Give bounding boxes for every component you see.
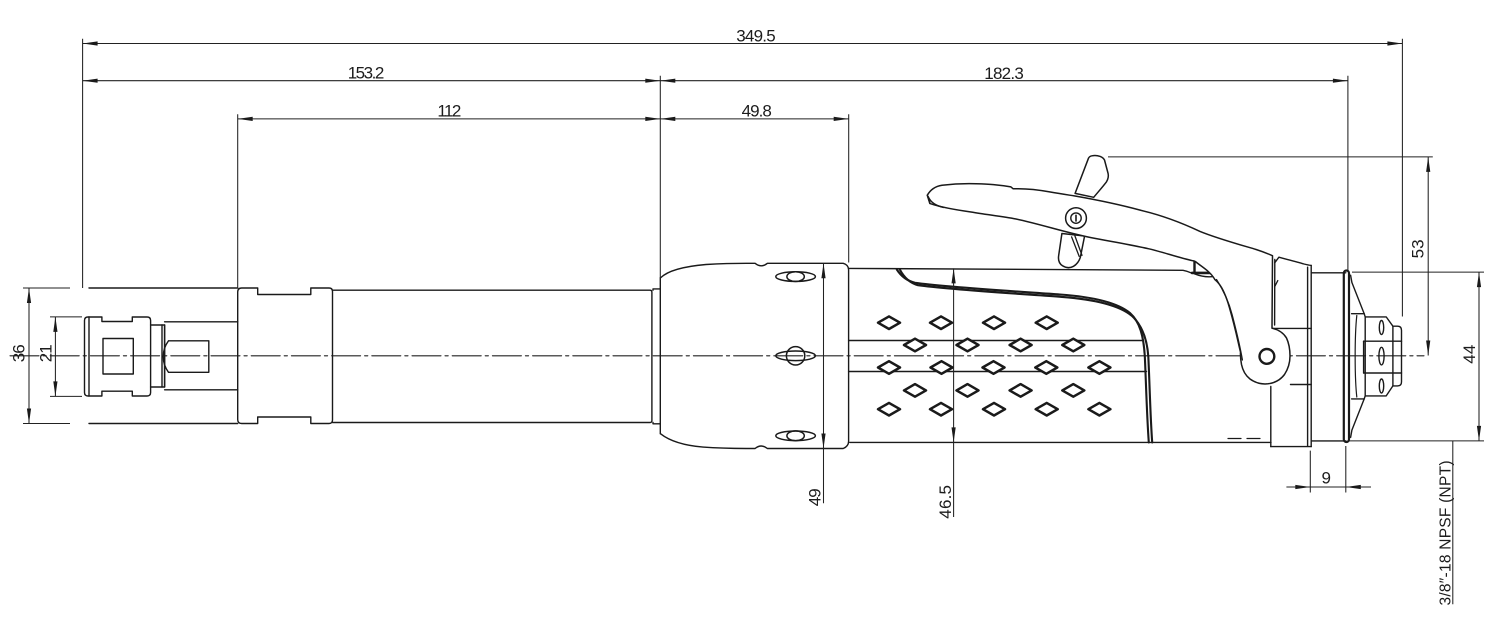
ext line left x=82.6 xyxy=(82,39,84,288)
end cap right edge xyxy=(1310,265,1312,446)
throttle lever (white filled) xyxy=(927,184,1290,384)
nose cylinder xyxy=(165,322,238,390)
svg-text:9: 9 xyxy=(1322,469,1331,488)
body bottom edge xyxy=(850,441,1271,443)
hex middle band left edge xyxy=(1363,341,1365,373)
bell deflector bottom edge xyxy=(1351,399,1365,438)
ext 44 bottom / NPSF leader horizontal xyxy=(1349,440,1484,442)
bell deflector top edge xyxy=(1351,275,1365,314)
dim 53 line xyxy=(1427,157,1429,356)
link edge twin line xyxy=(1217,280,1243,361)
ext line x=1402.4 (349.5 right) xyxy=(1401,39,1403,317)
chuck block xyxy=(85,317,151,396)
inner bore line upper xyxy=(849,340,1143,342)
dim 9 ext lines xyxy=(1310,446,1346,493)
vent slot top xyxy=(776,272,816,282)
hidden grip dashes near cap xyxy=(1228,438,1260,440)
diamond knurl pattern xyxy=(878,316,1110,415)
body top edge xyxy=(849,268,1191,272)
hex flat line upper xyxy=(1364,340,1402,342)
arrow 153.2 right xyxy=(645,79,660,83)
ext 44 top xyxy=(1352,271,1484,273)
svg-text:21: 21 xyxy=(37,344,56,362)
tube joint step ring xyxy=(653,289,660,424)
hex nipple end xyxy=(1393,326,1402,386)
dim 36 line xyxy=(28,288,30,424)
svg-text:3/8″-18 NPSF (NPT): 3/8″-18 NPSF (NPT) xyxy=(1438,461,1455,606)
arrow 49 top xyxy=(821,263,825,278)
thread crest mark middle xyxy=(1379,347,1384,365)
arrow 349.5 left xyxy=(83,41,98,45)
svg-text:349.5: 349.5 xyxy=(736,26,776,45)
dim line 349.5 xyxy=(83,43,1403,45)
arrow 153.2 left xyxy=(83,79,98,83)
dim 46.5 line xyxy=(953,268,955,517)
cone and head outline xyxy=(661,263,849,448)
arrow 44 bottom xyxy=(1477,426,1481,441)
collet insert xyxy=(163,341,209,373)
dim 21 line xyxy=(54,317,56,397)
arrow 21 bottom xyxy=(53,381,57,396)
square drive hole xyxy=(103,339,133,375)
end cap bottom xyxy=(1271,446,1311,448)
inlet flange disc xyxy=(1344,271,1349,443)
ext line 53 top xyxy=(1108,156,1433,158)
dim line 49.8 xyxy=(660,118,848,120)
arrow 21 top xyxy=(53,317,57,332)
dim line 182.3 xyxy=(660,80,1348,82)
spindle envelope top line xyxy=(89,287,238,289)
arrow 349.5 right xyxy=(1387,41,1402,45)
inlet neck bottom xyxy=(1311,440,1346,442)
lever entry bold seat xyxy=(1192,272,1213,275)
arrow 44 top xyxy=(1477,272,1481,287)
pivot screw outer circle xyxy=(1066,208,1087,229)
lever entry pocket arc xyxy=(1195,274,1215,277)
latch blade lines inside loop xyxy=(1072,236,1082,257)
cap top edge xyxy=(1275,257,1312,265)
arrow 9 right xyxy=(1346,485,1361,489)
NPSF leader vertical xyxy=(1452,441,1454,604)
lever tip facet xyxy=(927,195,943,207)
arrow 112 right xyxy=(645,117,660,121)
chuck block chamfer line xyxy=(88,317,90,396)
pivot screw inner circle xyxy=(1071,213,1081,223)
spindle ring inner line xyxy=(161,325,163,387)
dim line 112 xyxy=(238,118,661,120)
ext line x=660.3 xyxy=(659,76,661,278)
svg-text:53: 53 xyxy=(1408,239,1427,258)
arrow 53 top xyxy=(1426,157,1430,172)
cap corner check mark xyxy=(1275,281,1278,287)
arrow 53 bottom xyxy=(1426,341,1430,356)
arrow 49 bottom xyxy=(821,434,825,449)
svg-text:182.3: 182.3 xyxy=(984,64,1024,83)
grip contour outer curve xyxy=(897,270,1149,443)
end cap joint line lower xyxy=(1291,384,1312,386)
grip contour inner curve xyxy=(900,270,1152,443)
collar nut xyxy=(238,288,333,424)
lever strip second line xyxy=(1274,260,1276,326)
thread crest mark upper xyxy=(1379,321,1383,335)
centerline xyxy=(10,355,1424,357)
bell bottom shoulder line xyxy=(1352,396,1366,399)
motor tube top xyxy=(333,290,652,422)
ext line x=1347.9 (182.3) xyxy=(1347,76,1349,270)
arrow 46.5 top xyxy=(952,268,956,283)
dim 49 line xyxy=(823,263,825,503)
svg-text:44: 44 xyxy=(1460,345,1479,364)
lever boss pivot circle xyxy=(1260,349,1275,364)
latch capsule above lever xyxy=(1075,156,1108,198)
end cap joint line upper xyxy=(1272,327,1312,329)
bell throat curve xyxy=(1355,316,1357,398)
lever entry tick xyxy=(1193,262,1195,273)
arrow 112 left xyxy=(238,117,253,121)
dim 44 line xyxy=(1478,272,1480,441)
ext line x=237.7 xyxy=(237,114,239,288)
vent slot bottom xyxy=(776,431,816,441)
ext line x=848.7 xyxy=(848,114,850,262)
dim 36 ext overhangs xyxy=(23,288,70,424)
housing joint face xyxy=(659,278,661,434)
dim 9 line xyxy=(1286,486,1371,488)
dim line 153.2 xyxy=(83,80,661,82)
spindle envelope bottom line xyxy=(89,423,238,425)
arrow 46.5 bottom xyxy=(952,427,956,442)
end cap lower left edge xyxy=(1270,387,1272,447)
svg-text:46.5: 46.5 xyxy=(936,485,955,519)
latch loop below lever xyxy=(1058,234,1084,268)
arrow 36 top xyxy=(27,288,31,303)
vent slot middle xyxy=(776,347,816,365)
svg-text:153.2: 153.2 xyxy=(348,64,385,83)
dim 21 ext overhangs xyxy=(50,317,82,397)
arrow 182.3 left xyxy=(660,79,675,83)
arrow 49.8 right xyxy=(834,117,849,121)
thread crest mark lower xyxy=(1379,379,1383,393)
bell top shoulder line xyxy=(1352,314,1366,317)
arrow 49.8 left xyxy=(660,117,675,121)
arrow 182.3 right xyxy=(1333,79,1348,83)
svg-text:36: 36 xyxy=(10,344,29,362)
pivot screw slot xyxy=(1075,215,1077,221)
arrow 36 bottom xyxy=(27,409,31,424)
arrow 9 left xyxy=(1295,485,1310,489)
svg-text:112: 112 xyxy=(437,102,461,121)
inner bore line lower xyxy=(849,371,1147,373)
end cap inner right edge xyxy=(1307,267,1309,446)
hex flat line lower xyxy=(1364,372,1402,374)
svg-text:49: 49 xyxy=(806,488,825,506)
svg-text:49.8: 49.8 xyxy=(742,101,772,120)
hex bushing xyxy=(1365,317,1393,396)
inlet neck top xyxy=(1311,272,1346,274)
spindle ring xyxy=(151,325,165,387)
